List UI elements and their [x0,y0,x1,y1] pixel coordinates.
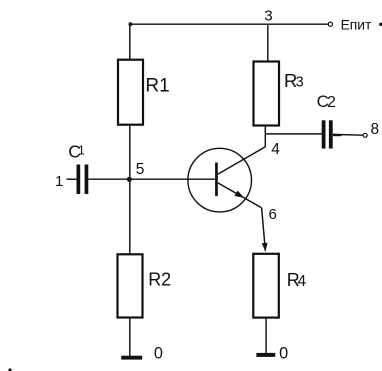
wire collector diagonal [218,147,266,174]
svg-text:6: 6 [269,206,277,223]
wire R1 bottom through node 5 to R2 top [129,125,131,255]
wire left branch vertical (rail to R1) [129,24,131,60]
transistor Q1 base bar [215,163,218,197]
arrowhead into R4 [262,243,268,252]
svg-text:0: 0 [154,344,163,362]
svg-text:Епит: Епит [341,17,372,32]
wire input stub to C1 [67,178,78,180]
wire R4 bottom to ground [265,318,267,355]
svg-text:R2: R2 [148,270,171,290]
wire thickening after C2 [333,135,342,137]
svg-text:4: 4 [298,273,307,290]
wire base (C1 to transistor base bar) [88,178,215,180]
resistor R2 [118,254,143,317]
emitter arrowhead [234,191,244,198]
stray mark bottom-left [8,368,11,371]
wire collector vertical to R3 bottom [264,125,266,147]
svg-text:1: 1 [55,173,63,190]
transistor Q1 body circle [188,148,252,212]
stray dot right edge [379,23,382,26]
svg-text:5: 5 [136,161,145,178]
node 5 junction dot [127,177,132,182]
svg-text:3: 3 [296,75,304,91]
ground bar right [256,353,275,357]
svg-text:8: 8 [371,121,380,138]
ground bar left [121,356,142,360]
svg-text:4: 4 [271,141,280,158]
wire R2 bottom to ground [129,318,131,357]
wire node 4 to C2 [265,133,321,135]
capacitor C2 plates [322,120,326,148]
wire R3 branch vertical (rail to R3 top) [267,24,269,62]
resistor R1 [118,60,143,125]
svg-text:2: 2 [327,94,336,111]
svg-text:3: 3 [264,7,272,24]
wire C2 to output terminal [333,133,364,136]
svg-text:0: 0 [279,344,288,362]
wire top rail from R1 branch to Epit terminal [130,23,328,25]
node junction dot top-left corner [129,22,133,26]
svg-text:R1: R1 [145,75,169,96]
svg-text:1: 1 [78,143,85,157]
capacitor C1 plates [77,165,81,195]
wire emitter to R4 [262,208,266,251]
wire emitter diagonal [218,183,262,208]
terminal node 8 open circle [363,133,367,137]
resistor R3 [254,62,280,126]
terminal Епит open circle [328,22,332,26]
resistor R4 [253,254,278,318]
